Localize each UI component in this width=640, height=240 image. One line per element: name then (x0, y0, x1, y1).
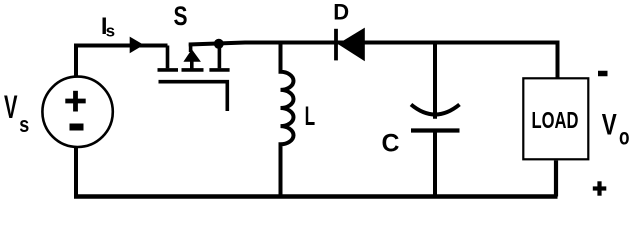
svg-text:s: s (19, 112, 29, 137)
svg-text:S: S (174, 1, 188, 31)
svg-text:V: V (4, 89, 18, 125)
svg-text:C: C (382, 130, 400, 158)
svg-text:o: o (619, 124, 630, 150)
svg-text:D: D (333, 0, 349, 25)
svg-text:s: s (106, 22, 115, 41)
svg-text:V: V (602, 109, 617, 142)
svg-text:LOAD: LOAD (532, 107, 579, 133)
svg-text:L: L (305, 101, 316, 131)
